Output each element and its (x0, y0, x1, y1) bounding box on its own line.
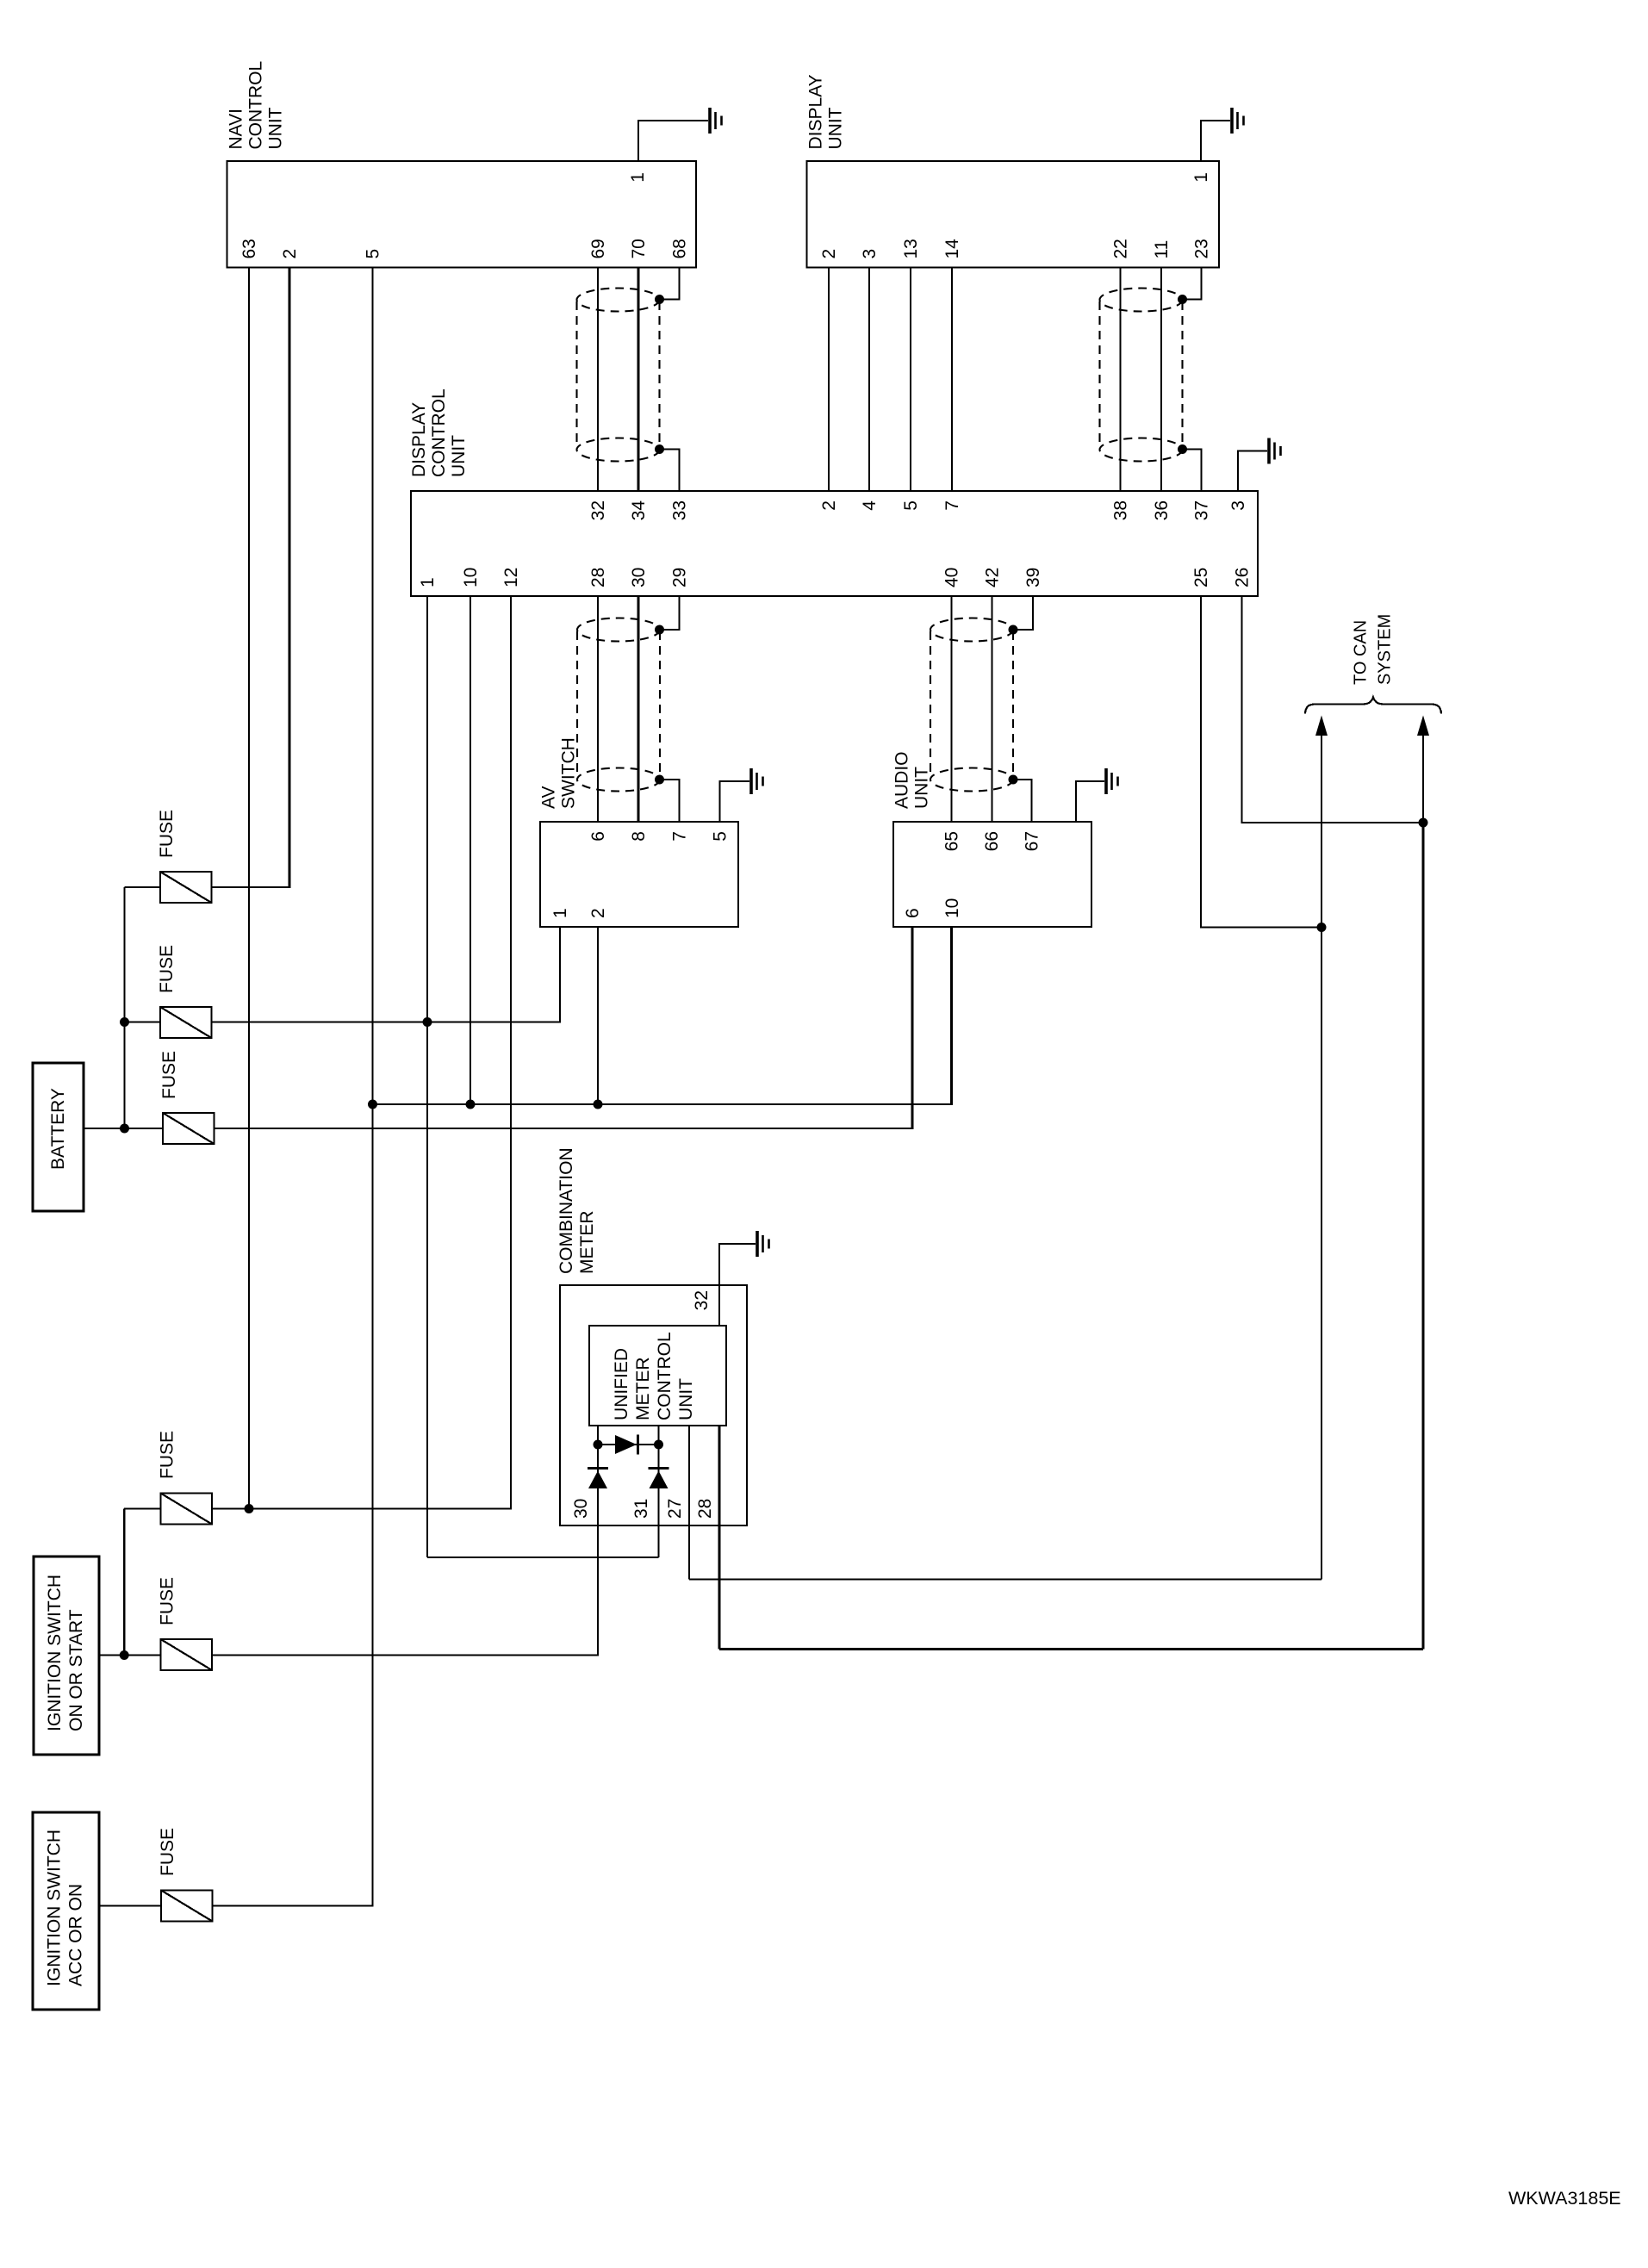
DCU-AUDIO shield cylinder (930, 618, 1013, 642)
svg-text:FUSE: FUSE (158, 1577, 177, 1625)
svg-text:UNIT: UNIT (449, 435, 469, 477)
svg-text:11: 11 (1152, 240, 1172, 259)
junction dot CAN-L (1317, 923, 1327, 932)
fuse F2 (battery to DCU 1 / AV 1) (160, 1007, 212, 1038)
wire NAVI 68 shield drain top (660, 268, 680, 300)
battery bus vertical wire (123, 887, 125, 1128)
wire fuse F1 to NAVI pin 2 (thick) (288, 268, 290, 889)
svg-text:26: 26 (1233, 568, 1253, 587)
svg-text:2: 2 (280, 249, 300, 259)
svg-text:5: 5 (364, 249, 383, 259)
wire DCU 28 to AV 6 (597, 596, 599, 822)
svg-text:2: 2 (819, 249, 839, 259)
diode D2 (vertical, pin 30 wire) (588, 1467, 608, 1470)
svg-text:68: 68 (670, 239, 690, 258)
svg-text:1: 1 (418, 577, 438, 587)
svg-text:ON OR START: ON OR START (66, 1609, 86, 1731)
AV SWITCH ground wire (720, 781, 750, 822)
AV SWITCH box (540, 822, 738, 927)
wire METER pin 27 vertical (688, 1426, 690, 1580)
wire NAVI pin 63 vertical to fuse F4 row (248, 268, 250, 1509)
wire shield drain to AV 7 (660, 780, 680, 822)
svg-text:3: 3 (860, 249, 880, 259)
ground for AV SWITCH (749, 768, 753, 794)
junction dot shield DCU-AV bottom (655, 775, 664, 785)
wire DCU pin 26 to CAN-H (1242, 596, 1424, 823)
svg-text:31: 31 (631, 1499, 651, 1519)
wire IGN ON/START to fuse F5 (99, 1654, 161, 1656)
svg-text:4: 4 (860, 500, 880, 511)
svg-text:COMBINATION: COMBINATION (557, 1147, 576, 1274)
TO CAN SYSTEM brace (1305, 698, 1441, 714)
wire METER pin 30 lower vertical (597, 1525, 599, 1656)
svg-text:63: 63 (239, 239, 259, 258)
svg-text:FUSE: FUSE (158, 1431, 177, 1479)
svg-text:33: 33 (670, 500, 690, 520)
svg-text:CONTROL: CONTROL (655, 1332, 675, 1420)
fuse F1 (battery to NAVI 2) (160, 872, 212, 903)
wire NAVI 69 to DCU 32 (597, 268, 599, 492)
fuse F3 (battery to AUDIO 6) (163, 1113, 215, 1144)
DISPLAY UNIT pin 1 ground wire (1201, 121, 1230, 161)
wire shield drain to AUDIO 67 (1013, 780, 1032, 822)
wire shield drain to DCU 33 (660, 450, 680, 492)
ground for AUDIO UNIT (1104, 768, 1108, 794)
wire DU 11 to DCU 36 (1160, 268, 1162, 492)
fuse F6 (ACC to NAVI 5) (161, 1891, 213, 1922)
IGNITION SWITCH ON OR START box (34, 1557, 99, 1755)
svg-text:28: 28 (588, 568, 608, 587)
junction dot CAN-H (1419, 818, 1428, 828)
wire IGN ACC to fuse F6 (99, 1904, 161, 1906)
wire NAVI pin 5 vertical to fuse F6 row (371, 268, 373, 1906)
wire battery row to AUDIO pin 6 (thick) (911, 927, 913, 1129)
CAN-H line with arrow (1422, 733, 1424, 823)
svg-text:2: 2 (819, 500, 839, 511)
wire DCU pin 12 vertical (510, 596, 512, 1510)
svg-text:7: 7 (670, 831, 690, 842)
svg-text:36: 36 (1152, 500, 1172, 520)
svg-text:12: 12 (501, 568, 521, 587)
svg-text:UNIT: UNIT (266, 107, 286, 149)
svg-text:32: 32 (588, 500, 608, 520)
svg-text:WKWA3185E: WKWA3185E (1508, 2188, 1621, 2209)
junction dot row1282 AV 2 (594, 1100, 603, 1109)
svg-text:5: 5 (711, 831, 731, 842)
UNIFIED METER CONTROL UNIT inner box (589, 1326, 726, 1426)
svg-text:1: 1 (550, 908, 570, 918)
svg-text:BATTERY: BATTERY (48, 1088, 68, 1170)
ground for COMBINATION METER (756, 1231, 759, 1257)
svg-text:AV: AV (539, 786, 559, 809)
svg-text:22: 22 (1111, 239, 1131, 258)
svg-text:FUSE: FUSE (158, 1828, 177, 1876)
wire METER pin 28 vertical (thick) (718, 1426, 720, 1650)
svg-text:ACC OR ON: ACC OR ON (66, 1884, 86, 1986)
wire fuse F2 row to AV pin 1 (125, 1021, 161, 1022)
svg-text:SWITCH: SWITCH (559, 737, 579, 809)
junction dot diode D1 anode (594, 1440, 603, 1450)
DU-DCU shield cylinder (1100, 289, 1183, 312)
svg-text:29: 29 (670, 568, 690, 587)
wire DCU 40 to AUDIO 65 (950, 596, 952, 822)
wire DU pin 2 to DCU 2 (828, 268, 830, 492)
BATTERY box (33, 1063, 84, 1211)
wire DU pin 13 to DCU 5 (910, 268, 911, 492)
wire AV pin 1 vertical (559, 927, 561, 1023)
svg-text:5: 5 (901, 500, 921, 511)
junction dot row1282 NAVI 5 (368, 1100, 377, 1109)
wire METER pin 27 to CAN-L (689, 1578, 1322, 1580)
ground for DISPLAY UNIT (1230, 108, 1234, 134)
svg-text:37: 37 (1192, 500, 1212, 520)
svg-text:30: 30 (571, 1499, 591, 1519)
wire DU pin 14 to DCU 7 (951, 268, 953, 492)
DISPLAY UNIT box (807, 161, 1220, 268)
svg-text:FUSE: FUSE (157, 945, 177, 993)
svg-text:IGNITION SWITCH: IGNITION SWITCH (45, 1830, 65, 1986)
IGNITION SWITCH ACC OR ON box (33, 1812, 99, 2010)
wire DCU pin 1 vertical (426, 596, 428, 1557)
svg-text:32: 32 (692, 1290, 712, 1310)
svg-text:METER: METER (577, 1211, 597, 1275)
NAVI-DCU shield cylinder (577, 289, 660, 312)
svg-text:14: 14 (942, 239, 962, 259)
junction dot fuse F4 to NAVI 63 (245, 1504, 254, 1513)
CAN-L line with arrow (1321, 733, 1322, 1580)
junction dot shield DCU-AUDIO top (1009, 625, 1018, 635)
wire DU 23 shield drain top (1183, 268, 1202, 300)
wire shield drain to DCU 37 (1183, 450, 1202, 492)
wire DCU 29 shield drain top (660, 596, 680, 630)
svg-text:NAVI: NAVI (227, 109, 246, 149)
svg-text:UNIT: UNIT (826, 107, 846, 149)
wire UMCU pin 31 vertical (657, 1426, 659, 1557)
junction dot shield DU-DCU bottom (1178, 444, 1187, 454)
svg-text:28: 28 (695, 1499, 715, 1519)
svg-text:27: 27 (665, 1499, 685, 1519)
svg-text:FUSE: FUSE (159, 1051, 179, 1099)
svg-text:13: 13 (901, 239, 921, 258)
wire METER pin 28 to CAN-H (thick) (719, 1648, 1423, 1650)
svg-text:DISPLAY: DISPLAY (806, 74, 826, 149)
wire UMCU left output vertical (pin 30) (597, 1426, 599, 1525)
junction dot shield DU-DCU top (1178, 295, 1187, 304)
wire ACC/ON row at y1282 (373, 1103, 952, 1105)
junction dot fuse F2 row to DCU 1 (423, 1017, 432, 1027)
wire DCU 39 shield drain top (1013, 596, 1033, 630)
svg-text:65: 65 (942, 831, 962, 851)
svg-text:39: 39 (1023, 568, 1043, 587)
ground for NAVI CONTROL UNIT (708, 108, 712, 134)
diode D3 (vertical, pin 31 wire) (649, 1467, 669, 1470)
AUDIO UNIT box (893, 822, 1091, 927)
svg-text:IGNITION SWITCH: IGNITION SWITCH (45, 1575, 65, 1731)
diode D1 (horizontal) (598, 1444, 659, 1445)
NAVI CONTROL UNIT box (227, 161, 697, 268)
wire NAVI 70 to DCU 34 (thick) (637, 268, 639, 492)
wire ignition bus vertical (123, 1509, 125, 1656)
wire DCU pin 10 vertical (470, 596, 471, 1104)
COMBINATION METER outer box (560, 1285, 747, 1525)
wire fuse F4 row (124, 1507, 160, 1509)
wire DU pin 3 to DCU 4 (868, 268, 870, 492)
svg-text:42: 42 (983, 568, 1003, 587)
svg-text:8: 8 (629, 831, 649, 842)
svg-text:70: 70 (629, 239, 649, 258)
DISPLAY CONTROL UNIT box (411, 491, 1258, 596)
junction dot shield NAVI-DCU top (655, 295, 664, 304)
svg-text:1: 1 (628, 172, 648, 183)
wire fuse F1 row (125, 886, 161, 888)
junction dot shield DCU-AV top (655, 625, 664, 635)
svg-text:66: 66 (982, 831, 1002, 851)
wire fuse F5 row to METER 30 (211, 1654, 598, 1656)
junction dot diode D1 cathode (654, 1440, 663, 1450)
svg-text:3: 3 (1228, 500, 1248, 511)
svg-text:69: 69 (588, 239, 608, 258)
svg-text:40: 40 (942, 568, 962, 587)
svg-text:10: 10 (461, 568, 481, 587)
svg-text:6: 6 (588, 831, 608, 842)
svg-text:38: 38 (1111, 500, 1131, 520)
svg-text:DISPLAY: DISPLAY (409, 402, 429, 477)
svg-text:67: 67 (1023, 831, 1042, 851)
svg-text:CONTROL: CONTROL (246, 61, 266, 150)
wire DCU pin 25 to CAN-L (1201, 596, 1322, 928)
svg-text:UNIT: UNIT (676, 1378, 696, 1420)
svg-text:6: 6 (903, 908, 923, 918)
wire fuse F6 row to NAVI 5 (213, 1904, 374, 1906)
svg-text:METER: METER (633, 1358, 653, 1421)
wire DCU pin 1 to METER 31 row (427, 1557, 659, 1558)
METER pin 32 ground wire (719, 1244, 756, 1326)
svg-text:UNIFIED: UNIFIED (612, 1348, 631, 1420)
svg-text:10: 10 (942, 898, 962, 918)
svg-text:1: 1 (1191, 172, 1211, 183)
junction dot ignition bus (120, 1650, 129, 1660)
svg-text:TO CAN: TO CAN (1352, 620, 1371, 685)
svg-text:CONTROL: CONTROL (429, 388, 449, 477)
svg-text:2: 2 (588, 908, 608, 918)
wire AV pin 2 vertical (597, 927, 599, 1104)
AUDIO UNIT ground wire (1076, 781, 1104, 822)
DCU-AV shield cylinder (577, 618, 660, 642)
wire battery row (84, 1128, 163, 1129)
svg-text:7: 7 (942, 500, 962, 511)
junction dot shield NAVI-DCU bottom (655, 444, 664, 454)
svg-text:30: 30 (629, 568, 649, 587)
wire DU 22 to DCU 38 (1119, 268, 1121, 492)
wire row1282 to AUDIO pin 10 (thick) (950, 927, 953, 1105)
wire DCU 30 to AV 8 (thick) (637, 596, 639, 822)
fuse F5 (ignition to METER 30) (161, 1639, 213, 1670)
DCU pin 3 ground wire (1238, 451, 1267, 492)
svg-text:25: 25 (1191, 568, 1211, 587)
svg-text:AUDIO: AUDIO (892, 751, 912, 809)
svg-text:UNIT: UNIT (912, 767, 932, 809)
svg-text:FUSE: FUSE (157, 810, 177, 858)
junction dot shield DCU-AUDIO bottom (1009, 775, 1018, 785)
ground for DISPLAY CONTROL UNIT (1267, 438, 1271, 464)
junction dot bus to fuse F2 (120, 1017, 129, 1027)
junction dot bus to battery row (120, 1124, 129, 1134)
svg-text:34: 34 (629, 500, 649, 521)
fuse F4 (ignition to NAVI 63 / DCU 12) (161, 1494, 213, 1525)
svg-text:23: 23 (1192, 239, 1212, 258)
wire DCU 42 to AUDIO 66 (991, 596, 992, 822)
NAVI pin 1 ground wire (638, 121, 708, 161)
junction dot row1282 DCU 10 (466, 1100, 476, 1109)
svg-text:SYSTEM: SYSTEM (1376, 614, 1395, 685)
